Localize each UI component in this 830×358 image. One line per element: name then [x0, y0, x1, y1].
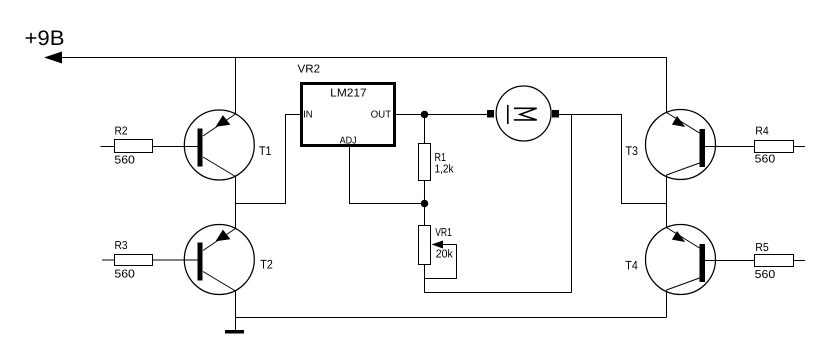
ground — [225, 330, 244, 334]
resistor R2 — [115, 140, 153, 153]
wire node to LM217 IN — [236, 115, 301, 204]
potentiometer VR1 wiper arrow — [442, 244, 457, 246]
svg-text:R1: R1 — [435, 152, 447, 164]
svg-text:LM217: LM217 — [330, 87, 367, 99]
wire VR1 bottom lead — [425, 265, 572, 293]
wire T4 collector to bottom rail — [666, 290, 668, 318]
svg-text:R3: R3 — [115, 240, 128, 252]
svg-text:T2: T2 — [260, 258, 273, 272]
wire T2 collector to ground — [235, 291, 237, 330]
motor M1 — [487, 86, 559, 141]
wire T1 emitter to rail — [235, 58, 237, 115]
svg-text:R4: R4 — [755, 126, 769, 138]
wire R3 to T2 base — [153, 259, 199, 261]
svg-text:T4: T4 — [625, 259, 638, 273]
wire LM217 ADJ down and right — [350, 147, 425, 204]
transistor T3 — [646, 110, 716, 180]
wire motor right to T3/T4 junction — [559, 115, 667, 204]
svg-text:R5: R5 — [755, 242, 769, 254]
wire R4 right stub — [794, 146, 806, 148]
svg-text:VR2: VR2 — [298, 63, 321, 75]
IC VR2 LM217 regulator box — [302, 84, 395, 146]
wire VR1 top lead — [424, 204, 426, 226]
transistor T4 — [646, 225, 716, 295]
wire R2 left stub — [101, 146, 115, 148]
svg-text:ADJ: ADJ — [340, 135, 357, 146]
svg-text:1,2k: 1,2k — [435, 164, 454, 176]
wire T3 emitter to rail — [666, 58, 668, 113]
svg-text:R2: R2 — [115, 126, 128, 138]
resistor R5 — [755, 255, 794, 267]
svg-text:OUT: OUT — [371, 109, 392, 120]
svg-text:IN: IN — [303, 109, 313, 120]
svg-text:T3: T3 — [626, 144, 639, 158]
wire T4 base to R5 — [705, 260, 754, 262]
wire R1 bottom lead — [424, 181, 426, 204]
wire bottom rail — [236, 317, 667, 319]
wire R2 to T1 base — [153, 146, 199, 148]
resistor R4 — [755, 141, 794, 153]
wire VR1 wiper to bottom terminal — [425, 245, 457, 279]
svg-text:T1: T1 — [259, 144, 272, 158]
wire R3 left stub — [102, 259, 115, 261]
svg-text:560: 560 — [114, 268, 135, 280]
node junction ADJ/R1/VR1 — [421, 200, 429, 208]
wire LM217 OUT to motor — [396, 114, 488, 116]
svg-text:20k: 20k — [436, 249, 453, 261]
wire R5 right stub — [794, 260, 806, 262]
transistor T1 — [184, 110, 254, 180]
transistor T2 — [184, 225, 254, 295]
node junction OUT/R1 — [421, 111, 429, 119]
wire +9V top rail — [46, 57, 667, 59]
wire T3 collector to T4 emitter — [666, 175, 668, 228]
svg-text:560: 560 — [755, 269, 776, 281]
resistor R3 — [115, 255, 153, 266]
wire T1 collector to T2 emitter — [235, 177, 237, 229]
svg-text:VR1: VR1 — [435, 227, 452, 239]
svg-text:+9В: +9В — [25, 27, 65, 50]
resistor R1 — [419, 144, 431, 181]
wire R1 top lead — [424, 115, 426, 144]
wire motor right branch down — [571, 115, 573, 293]
svg-text:560: 560 — [755, 154, 776, 166]
node +9V arrow — [44, 52, 62, 64]
wire T3 base to R4 — [705, 146, 755, 148]
potentiometer VR1 — [419, 226, 431, 265]
svg-text:560: 560 — [114, 154, 135, 166]
